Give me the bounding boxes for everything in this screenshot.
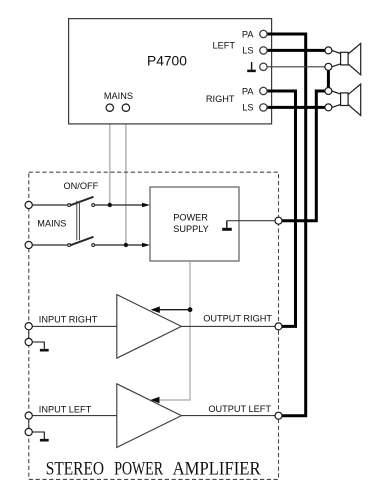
terminal PA right [260, 87, 267, 94]
svg-text:ON/OFF: ON/OFF [64, 181, 99, 191]
terminal output left [275, 412, 282, 419]
svg-text:PA: PA [242, 86, 254, 96]
terminal output right [275, 323, 282, 330]
svg-text:INPUT RIGHT: INPUT RIGHT [39, 315, 98, 325]
svg-text:MAINS: MAINS [37, 218, 66, 228]
wire LS right to speaker 2 (thick) [266, 106, 326, 109]
terminal ground P4700 [260, 63, 267, 70]
terminal LS right [260, 104, 267, 111]
wire ground to speaker 1 (thin) [266, 66, 326, 68]
terminal LS left [260, 47, 267, 54]
wire input right shield [28, 330, 30, 339]
op-amp right channel [117, 295, 182, 359]
arrow power to left amp [150, 397, 159, 404]
terminal MAINS pin 1 [106, 104, 113, 111]
terminal PA left [260, 30, 267, 37]
wire power supply common to terminal [227, 220, 275, 222]
svg-text:INPUT LEFT: INPUT LEFT [39, 405, 92, 415]
terminal input right shield [25, 338, 32, 345]
svg-text:MAINS: MAINS [104, 91, 133, 101]
wire input left shield [28, 420, 30, 429]
junction dot mains 2 [124, 243, 128, 247]
wire PA right to output right (thick) [266, 91, 296, 326]
svg-text:LEFT: LEFT [213, 40, 236, 50]
ground symbol (power supply) [222, 221, 232, 230]
wire LS left to speaker 1 (thick) [266, 49, 326, 52]
terminal input left shield [25, 428, 32, 435]
svg-text:OUTPUT RIGHT: OUTPUT RIGHT [203, 314, 272, 324]
dashed enclosure stereo power amplifier [29, 172, 279, 479]
label STEREO POWER AMPLIFIER [46, 458, 261, 479]
power supply box [150, 187, 239, 261]
svg-text:POWER: POWER [114, 458, 163, 479]
svg-text:RIGHT: RIGHT [206, 94, 235, 104]
junction dot power feed right amp [188, 307, 193, 312]
speaker LS1 body [332, 43, 361, 74]
wire speaker1 minus to speaker2 plus (thick) [327, 67, 330, 91]
wire speaker2 plus to power supply common (thick) [282, 91, 326, 221]
wire input left [32, 415, 117, 417]
terminal speaker1 minus [325, 63, 332, 70]
wire power feed vertical [160, 261, 190, 400]
svg-text:POWER: POWER [173, 213, 208, 223]
ground symbol input left [32, 432, 49, 440]
svg-text:LS: LS [242, 103, 253, 113]
svg-text:OUTPUT LEFT: OUTPUT LEFT [208, 404, 271, 414]
arrow into power supply 2 [142, 243, 150, 248]
terminal mains L [25, 201, 32, 208]
svg-text:P4700: P4700 [147, 53, 187, 68]
svg-text:SUPPLY: SUPPLY [173, 224, 209, 234]
wire input right [32, 325, 117, 327]
ground symbol (P4700 chassis) [247, 62, 256, 71]
switch linkage [77, 201, 80, 241]
wire mains vertical 2 (gray) [125, 111, 127, 245]
svg-text:LS: LS [242, 46, 253, 56]
terminal input left [25, 412, 32, 419]
terminal speaker2 minus [325, 104, 332, 111]
switch S1 pole 1 [32, 197, 143, 207]
terminal speaker1 plus [325, 47, 332, 54]
P4700 unit box [69, 19, 272, 124]
terminal input right [25, 323, 32, 330]
ground symbol input right [32, 342, 49, 350]
terminal MAINS pin 2 [122, 104, 129, 111]
speaker LS2 body [332, 84, 361, 115]
junction dot mains 1 [108, 203, 112, 207]
terminal speaker2 plus [325, 88, 332, 95]
terminal common on enclosure [275, 217, 282, 224]
op-amp left channel [117, 384, 182, 448]
wire mains vertical 1 (gray) [109, 111, 111, 205]
svg-text:PA: PA [242, 29, 254, 39]
wire PA left to output left (thick) [266, 34, 306, 416]
svg-text:STEREO: STEREO [46, 458, 104, 479]
switch S1 pole 2 [32, 237, 143, 247]
wire output left [181, 415, 275, 417]
arrow power to right amp [158, 309, 190, 311]
arrow into power supply 1 [142, 203, 150, 208]
svg-text:AMPLIFIER: AMPLIFIER [173, 458, 261, 479]
terminal mains N [25, 241, 32, 248]
wire output right [181, 325, 275, 327]
